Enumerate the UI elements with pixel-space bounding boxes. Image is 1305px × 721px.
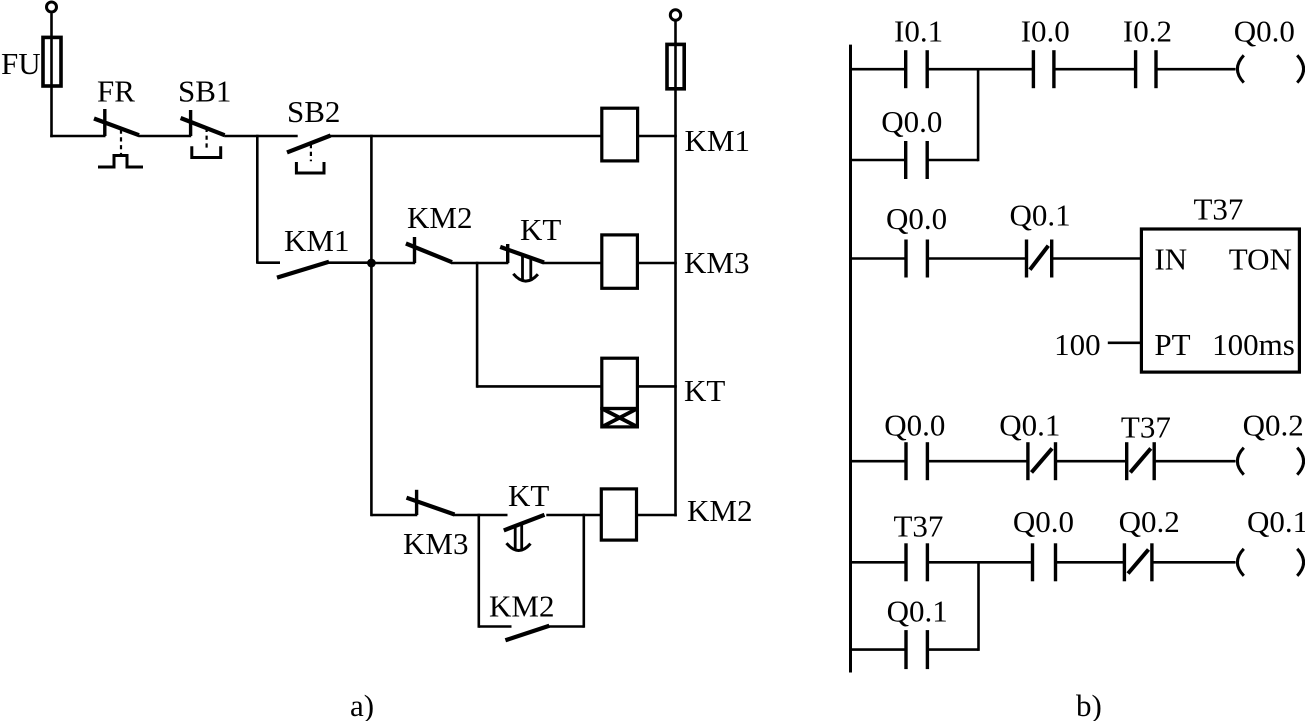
svg-text:I0.0: I0.0 (1021, 14, 1070, 49)
coil KM3 (602, 235, 638, 288)
wire sub-rung stub right (548, 625, 584, 628)
wire rung 3 segment a (477, 385, 602, 388)
pushbutton SB2 (NO start button) (287, 136, 331, 174)
contact KM2 (NO self-holding) (505, 626, 549, 641)
wire rung 4 segment c (1057, 561, 1123, 564)
svg-text:KM1: KM1 (685, 123, 750, 158)
pushbutton SB1 (NC stop button) (181, 110, 225, 158)
svg-text:T37: T37 (1194, 192, 1244, 227)
coil Q0.1 (output) (1237, 549, 1303, 576)
svg-text:KM1: KM1 (284, 223, 349, 258)
contact KT (NO time-delayed closing) (504, 515, 545, 551)
svg-text:a): a) (350, 688, 374, 721)
coil KM1 (602, 108, 638, 161)
svg-text:I0.1: I0.1 (894, 14, 943, 49)
svg-text:Q0.2: Q0.2 (1243, 408, 1304, 443)
svg-text:SB1: SB1 (178, 74, 231, 109)
svg-text:KM2: KM2 (489, 589, 554, 624)
wire rung 3 segment c (1057, 460, 1126, 463)
wire rung 1 segment c (1055, 68, 1134, 71)
svg-text:IN: IN (1154, 242, 1187, 277)
contact T37 (NC, rung3) (1127, 442, 1155, 480)
wire rung 2 segment c (1053, 257, 1141, 260)
wire rung 4 segment d (1153, 561, 1235, 564)
thermal contact FR (NC) (94, 109, 143, 167)
contact Q0.0 (NO self-hold) (906, 141, 928, 179)
svg-text:Q0.0: Q0.0 (886, 201, 947, 236)
wire branch 1 vertical (977, 69, 980, 161)
wire rung 3 segment b (929, 460, 1027, 463)
wire rung 3 segment a (849, 460, 905, 463)
svg-text:100: 100 (1054, 327, 1101, 362)
svg-text:PT: PT (1154, 327, 1190, 362)
wire main rung 1 segment d (330, 135, 602, 138)
svg-text:100ms: 100ms (1212, 327, 1295, 362)
wire branch 1 rung right (929, 159, 979, 162)
svg-text:T37: T37 (1121, 410, 1171, 445)
contact KM1 (NO self-holding) (277, 262, 329, 278)
wire rung 2 segment a (849, 257, 905, 260)
wire rung 2 segment c (543, 262, 602, 265)
svg-text:Q0.1: Q0.1 (1010, 198, 1071, 233)
wire main rung 1 segment e (638, 135, 677, 138)
contact Q0.1 (NC, rung3) (1028, 442, 1056, 480)
svg-text:Q0.0: Q0.0 (881, 104, 942, 139)
svg-text:KM3: KM3 (684, 245, 749, 280)
coil KM2 (601, 489, 636, 540)
wire main rung 1 segment a (50, 135, 105, 138)
svg-text:Q0.2: Q0.2 (1119, 504, 1180, 539)
svg-text:KM2: KM2 (687, 493, 752, 528)
svg-text:Q0.0: Q0.0 (1234, 14, 1295, 49)
coil KT (time relay, with delay element box) (602, 358, 638, 427)
wire PT input stub (1108, 341, 1142, 344)
contact KM2 (NC interlock) (406, 237, 452, 263)
fuse FU (right) (667, 44, 684, 88)
svg-text:TON: TON (1229, 242, 1292, 277)
wire branch B down (from SB2 to KM2 rung) (370, 135, 373, 517)
contact KM3 (NC interlock) (407, 490, 455, 515)
wire rung 4 segment d (637, 514, 677, 517)
wire rung 2 segment b (929, 257, 1025, 260)
svg-text:I0.2: I0.2 (1123, 14, 1172, 49)
wire rung 2 segment d (637, 262, 676, 265)
wire rung 4 segment b (454, 514, 508, 517)
wire rung 4 segment b (929, 561, 1031, 564)
wire L1 vertical feed (50, 13, 53, 137)
wire sub-branch down left (477, 514, 480, 628)
svg-text:Q0.1: Q0.1 (999, 408, 1060, 443)
contact Q0.0 (NO) (906, 240, 927, 278)
wire branch 1 rung (849, 159, 904, 162)
wire rung 1 segment b (929, 68, 1033, 71)
svg-text:KT: KT (684, 373, 725, 408)
wire rung 1 segment d (1157, 68, 1235, 71)
wire main rung 1 segment b (138, 135, 191, 138)
svg-text:Q0.0: Q0.0 (1013, 504, 1074, 539)
svg-text:KT: KT (520, 212, 561, 247)
svg-text:b): b) (1076, 688, 1102, 721)
wire main rung 1 segment c (224, 135, 298, 138)
wire right bus (674, 20, 677, 516)
svg-text:SB2: SB2 (287, 94, 340, 129)
contact Q0.1 (NC) (1027, 240, 1052, 278)
wire sub-branch up right (582, 514, 585, 628)
wire rung 1 segment a (849, 68, 904, 71)
timer block T37 TON (1141, 229, 1299, 372)
fuse FU (left) (43, 37, 61, 86)
contact Q0.1 (NO parallel) (906, 630, 927, 669)
svg-text:Q0.0: Q0.0 (884, 408, 945, 443)
wire rung 4 segment c (546, 514, 601, 517)
node junction dot (367, 259, 376, 268)
wire branch 4 vertical (977, 562, 980, 651)
wire left power rail (849, 45, 852, 673)
wire rung 4 segment a (849, 561, 905, 564)
coil Q0.0 (output) (1237, 55, 1303, 82)
wire sub-rung stub left (479, 625, 512, 628)
svg-text:KT: KT (508, 478, 549, 513)
wire rung 2 stub right of KM1 contact (328, 261, 371, 264)
wire branch C down to timer coil (476, 262, 479, 388)
contact Q0.0 (NO, rung3) (906, 442, 927, 480)
svg-text:T37: T37 (894, 509, 944, 544)
contact KT (NC time-delayed) (500, 244, 544, 281)
contact I0.1 (NO) (906, 50, 928, 88)
contact I0.2 (NO) (1136, 50, 1156, 88)
wire rung 2 stub left (257, 261, 280, 264)
wire branch 4 rung left (849, 648, 905, 651)
wire rung 4 segment a (371, 514, 417, 517)
svg-text:FU: FU (1, 46, 41, 81)
wire rung 2 segment b (451, 262, 508, 265)
wire rung 3 segment d (1156, 460, 1236, 463)
coil Q0.2 (output) (1237, 448, 1303, 475)
contact Q0.2 (NC, rung4) (1124, 543, 1152, 581)
contact Q0.0 (NO, rung4) (1033, 543, 1056, 581)
terminal (top-right supply) (670, 10, 680, 20)
wire branch 4 rung right (929, 648, 979, 651)
svg-text:Q0.1: Q0.1 (1247, 504, 1305, 539)
svg-text:FR: FR (97, 74, 135, 109)
svg-text:Q0.1: Q0.1 (887, 594, 948, 629)
terminal (top-left supply) (47, 2, 57, 12)
svg-text:KM3: KM3 (403, 526, 468, 561)
contact I0.0 (NO) (1033, 50, 1054, 88)
svg-text:KM2: KM2 (407, 200, 472, 235)
contact T37 (NO, rung4) (906, 543, 927, 581)
wire rung 2 segment a (371, 262, 415, 265)
wire branch A down (self-hold branch) (256, 135, 259, 264)
wire rung 3 segment b (637, 385, 676, 388)
